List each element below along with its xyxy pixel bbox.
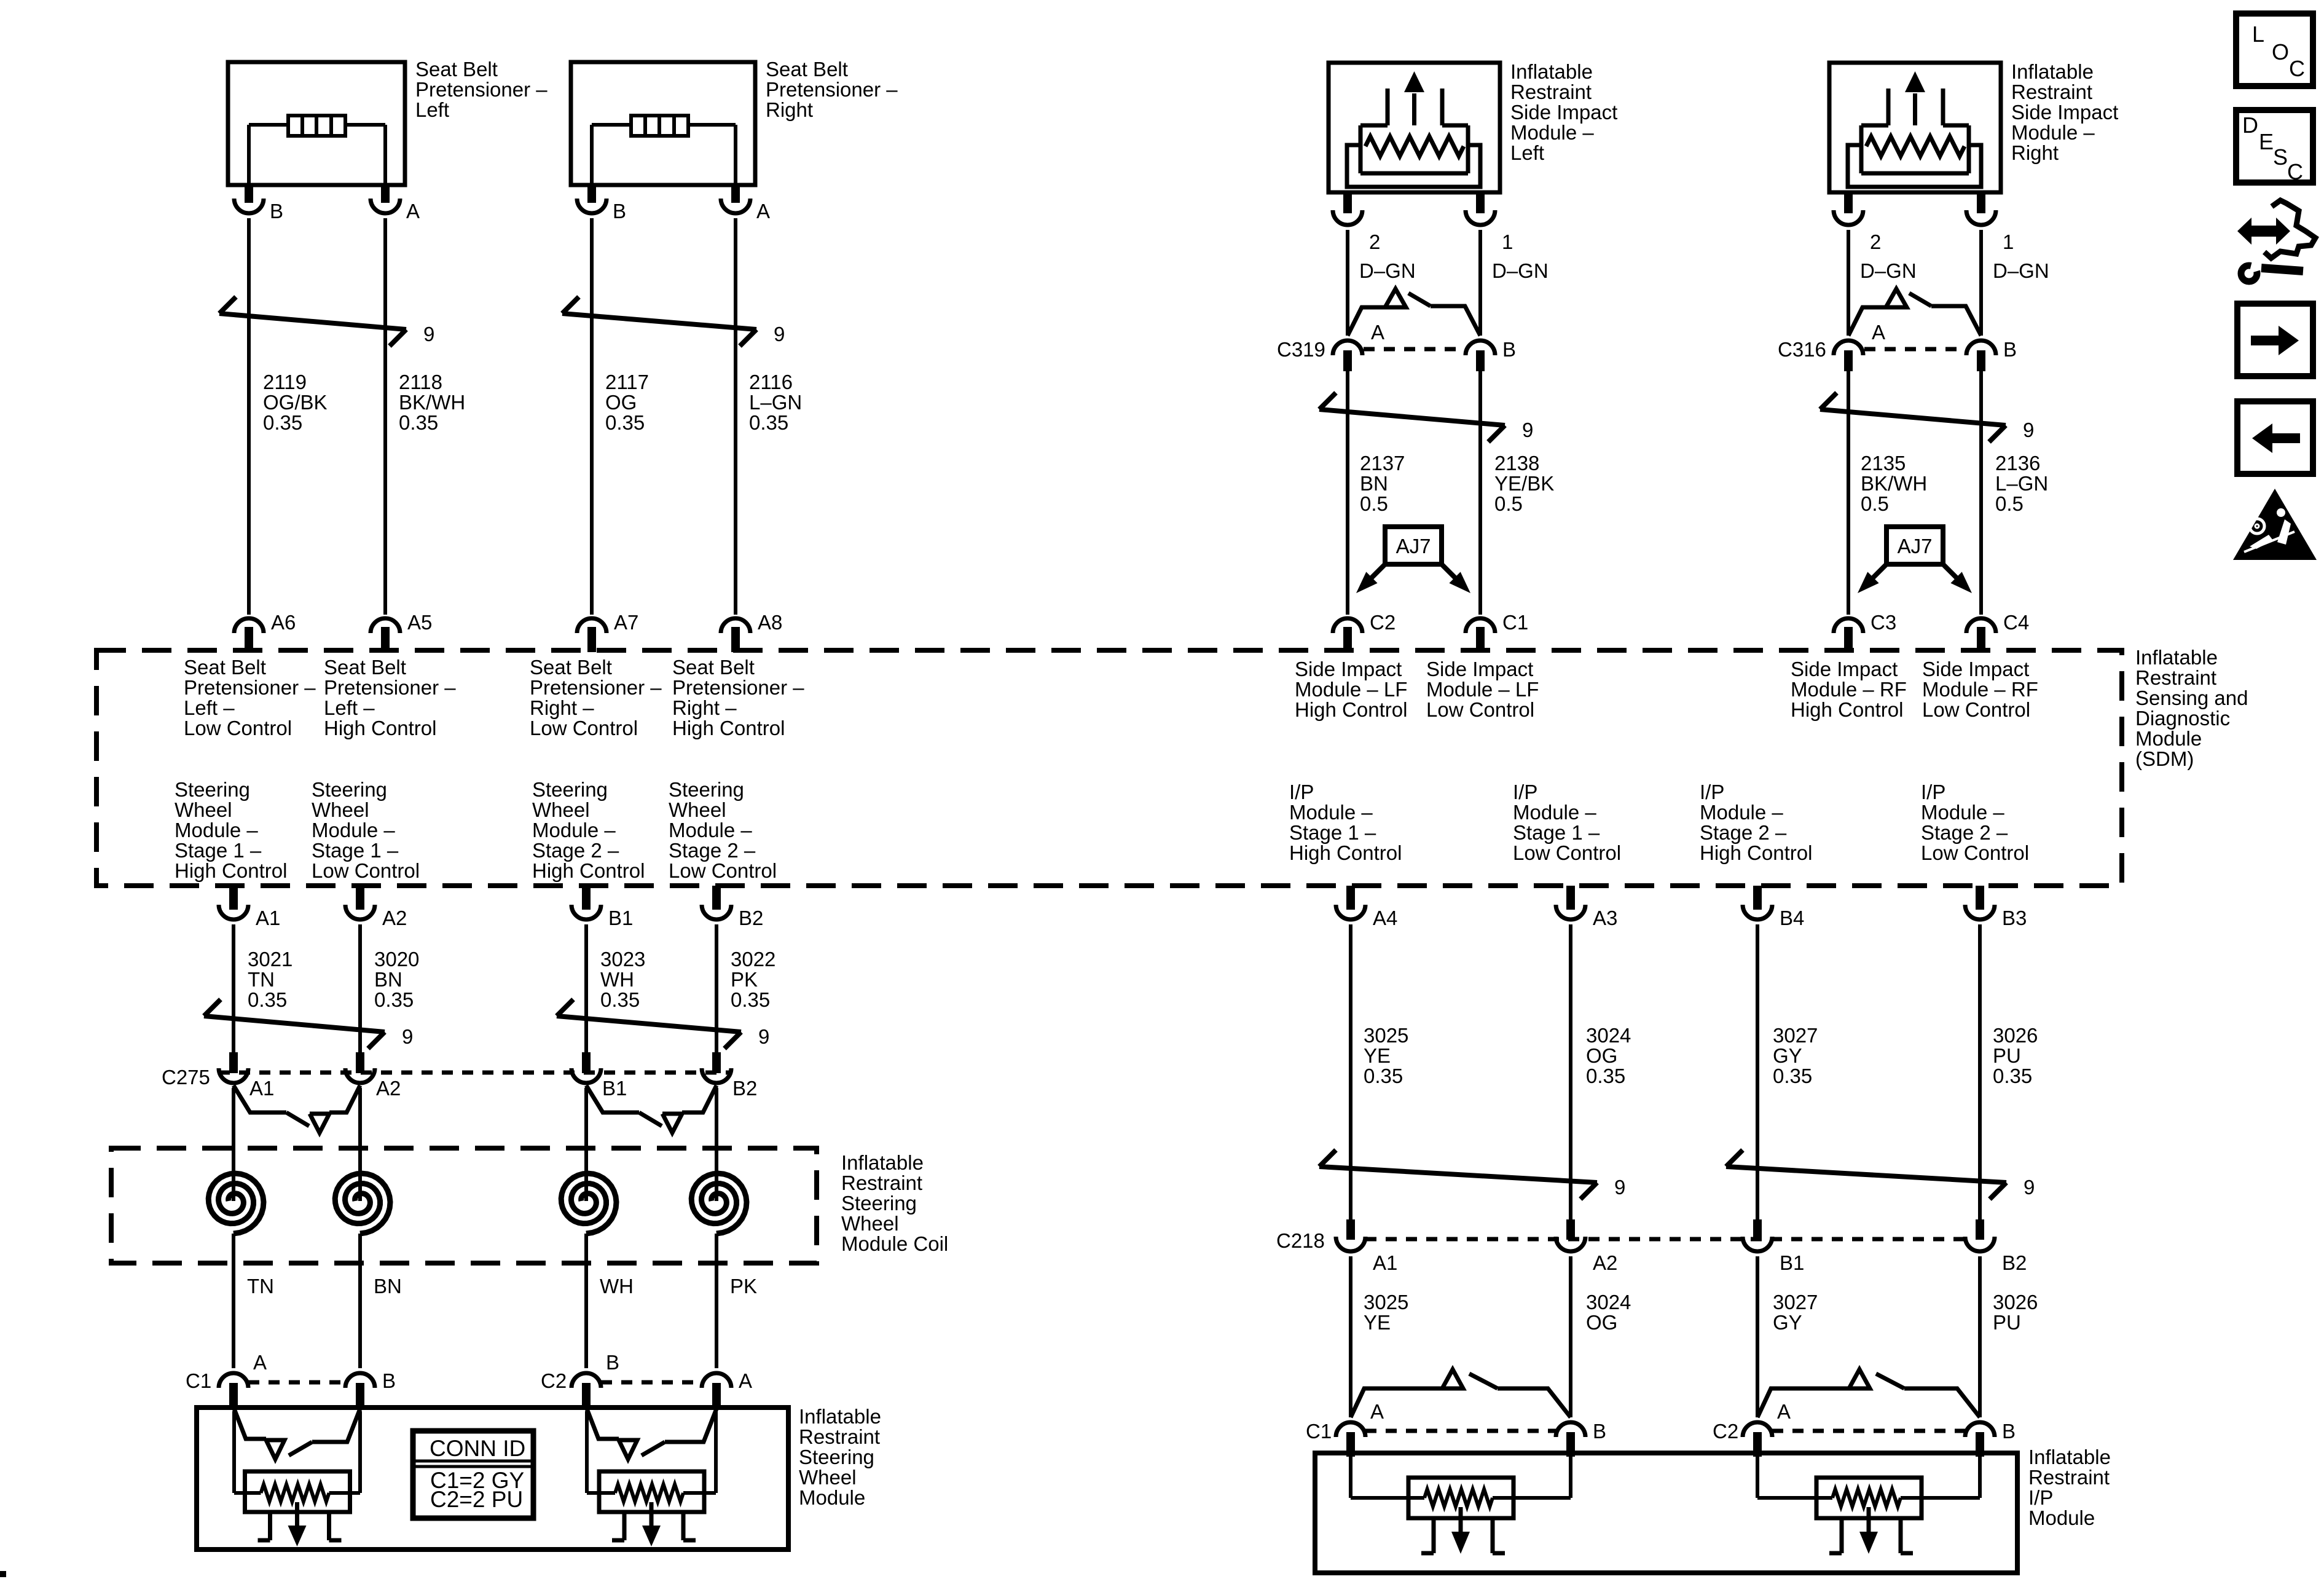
svg-text:Module Coil: Module Coil — [841, 1232, 948, 1255]
svg-text:B3: B3 — [2002, 907, 2027, 929]
C218 pin label A1 — [1373, 1251, 1397, 1274]
svg-text:Module –: Module – — [1513, 801, 1596, 824]
wire — [715, 924, 718, 1053]
label 9 — [402, 1025, 413, 1048]
svg-text:Module – LF: Module – LF — [1295, 678, 1407, 701]
wire — [1346, 371, 1349, 615]
SDM pin label B3 — [2002, 907, 2027, 929]
svg-text:Wheel: Wheel — [841, 1212, 899, 1235]
wire 3027 label — [1773, 1024, 1818, 1087]
SDM pin label A7 — [614, 611, 638, 634]
svg-text:Pretensioner –: Pretensioner – — [415, 78, 548, 101]
pin label A — [739, 1369, 752, 1392]
connector C1 line — [1365, 1429, 1556, 1433]
svg-text:GY: GY — [1773, 1311, 1802, 1334]
SDM top connector C1 stub — [1476, 627, 1485, 652]
svg-text:0.5: 0.5 — [1494, 492, 1523, 515]
IP module squib stage2 — [1757, 1453, 1980, 1554]
wire — [1349, 924, 1352, 1219]
svg-text:I/P: I/P — [1513, 781, 1537, 803]
svg-text:A: A — [253, 1351, 267, 1374]
SDM label side impact LF high — [1295, 658, 1407, 721]
svg-text:O: O — [2272, 39, 2289, 65]
svg-text:Left –: Left – — [184, 696, 235, 719]
svg-text:3024: 3024 — [1586, 1024, 1631, 1047]
C275 pin B2 cup — [702, 1068, 731, 1083]
svg-text:PK: PK — [730, 1275, 757, 1297]
svg-text:A8: A8 — [758, 611, 782, 634]
wire 3023 label — [600, 948, 645, 1011]
SDM pin label A3 — [1593, 907, 1617, 929]
svg-text:BN: BN — [374, 1275, 402, 1297]
svg-text:Wheel: Wheel — [175, 798, 232, 821]
SDM bottom connector B4 stub — [1753, 886, 1762, 910]
svg-text:S: S — [2273, 144, 2288, 170]
svg-text:Stage 2 –: Stage 2 – — [1700, 821, 1787, 844]
svg-text:Module – RF: Module – RF — [1791, 678, 1907, 701]
icon back arrow box — [2237, 401, 2313, 474]
pin label B — [382, 1369, 396, 1392]
svg-text:A3: A3 — [1593, 907, 1617, 929]
svg-text:Restraint: Restraint — [841, 1171, 922, 1194]
svg-text:B: B — [382, 1369, 396, 1392]
shorting clip in module C2 — [587, 1409, 716, 1459]
harness 9 crossing — [1820, 393, 2006, 442]
C218 pin A2 cup — [1556, 1237, 1585, 1251]
svg-text:9: 9 — [758, 1025, 769, 1048]
wire 2117 label — [605, 371, 649, 434]
svg-text:A1: A1 — [256, 907, 280, 929]
pretensioner Right pin A stub — [731, 185, 740, 203]
wire 3026 label2 — [1993, 1291, 2038, 1334]
svg-text:Module: Module — [799, 1486, 865, 1509]
SDM top connector A6 dome — [234, 618, 264, 633]
SDM top connector A6 stub — [245, 627, 253, 652]
pin connector — [1466, 210, 1495, 225]
svg-text:0.35: 0.35 — [731, 988, 770, 1011]
svg-text:0.5: 0.5 — [1360, 492, 1388, 515]
svg-text:C: C — [2289, 56, 2305, 81]
svg-text:Module –: Module – — [1700, 801, 1783, 824]
svg-text:3027: 3027 — [1773, 1291, 1818, 1313]
wire — [1847, 230, 1850, 336]
C218 pin B1 stub — [1753, 1219, 1762, 1240]
connector C1 label — [1306, 1420, 1332, 1443]
C275 pin label A2 — [376, 1077, 401, 1100]
SDM label steering wheel stage2 high — [532, 778, 645, 882]
svg-text:3022: 3022 — [731, 948, 775, 971]
svg-text:B2: B2 — [732, 1077, 757, 1100]
SDM label IP stage2 high — [1700, 781, 1812, 864]
C1/C2 dome A — [219, 1373, 248, 1388]
svg-text:Low Control: Low Control — [1921, 841, 2029, 864]
svg-text:0.35: 0.35 — [374, 988, 414, 1011]
C218 pin A1 cup — [1336, 1237, 1365, 1251]
icon forward arrow box — [2237, 304, 2313, 376]
svg-text:A: A — [1777, 1400, 1791, 1423]
connector dome A — [1834, 341, 1863, 355]
svg-text:3025: 3025 — [1364, 1291, 1408, 1313]
svg-text:0.35: 0.35 — [1993, 1065, 2032, 1087]
svg-text:9: 9 — [1522, 419, 1533, 441]
svg-text:B1: B1 — [602, 1077, 627, 1100]
svg-text:9: 9 — [774, 323, 785, 345]
SDM bottom connector A3 stub — [1566, 886, 1575, 910]
module pin stub — [1476, 192, 1485, 213]
svg-text:C1: C1 — [1306, 1420, 1332, 1443]
label 9 — [774, 323, 785, 345]
wire — [1756, 924, 1759, 1219]
svg-text:A2: A2 — [382, 907, 407, 929]
IP module label — [2028, 1446, 2111, 1529]
pin stub — [1976, 1432, 1984, 1457]
side impact module Left airbag symbol — [1347, 71, 1480, 187]
svg-text:High Control: High Control — [1791, 698, 1903, 721]
svg-text:C319: C319 — [1277, 338, 1325, 361]
seat belt pretensioner Right box — [571, 62, 755, 185]
svg-text:Module –: Module – — [532, 819, 616, 841]
SDM pin label A2 — [382, 907, 407, 929]
svg-text:Wheel: Wheel — [312, 798, 369, 821]
svg-text:B: B — [270, 200, 283, 222]
pin label 2 — [1870, 230, 1881, 253]
svg-text:Restraint: Restraint — [2011, 81, 2092, 103]
SDM pin label C3 — [1871, 611, 1896, 634]
svg-text:Module – LF: Module – LF — [1426, 678, 1539, 701]
pin stub — [1476, 350, 1485, 371]
C275 pin A1 stub — [229, 1052, 238, 1073]
wire 3025 label — [1364, 1024, 1408, 1087]
pin label B — [1593, 1420, 1606, 1443]
svg-text:Seat Belt: Seat Belt — [672, 656, 755, 679]
svg-text:3024: 3024 — [1586, 1291, 1631, 1313]
IP connector dome B — [1556, 1422, 1585, 1437]
IP connector dome B — [1965, 1422, 1995, 1437]
svg-text:Left: Left — [415, 98, 449, 121]
wire 3025 label2 — [1364, 1291, 1408, 1334]
SDM pin label C4 — [2003, 611, 2029, 634]
svg-text:Inflatable: Inflatable — [2011, 60, 2094, 83]
shorting clip at C319 — [1348, 289, 1480, 336]
wire color TN label — [247, 1275, 274, 1297]
pin label A — [1777, 1400, 1791, 1423]
wire — [358, 1088, 362, 1174]
wire 2119 label — [263, 371, 328, 434]
SDM bottom connector A4 cup — [1336, 905, 1365, 919]
steering wheel coil dashed box — [111, 1148, 817, 1263]
svg-text:0.5: 0.5 — [1995, 492, 2024, 515]
SDM bottom connector A4 stub — [1346, 886, 1355, 910]
SDM top connector A5 stub — [381, 627, 390, 652]
svg-text:Right: Right — [766, 98, 813, 121]
shorting clip below C275 B1-B2 — [586, 1085, 716, 1133]
svg-text:WH: WH — [600, 1275, 634, 1297]
pin label A — [756, 200, 770, 222]
pin stub — [1343, 350, 1352, 371]
svg-text:B: B — [1593, 1420, 1606, 1443]
inflatable restraint side impact module Left label — [1510, 60, 1617, 164]
svg-text:Side Impact: Side Impact — [1791, 658, 1898, 680]
pin label B — [606, 1351, 619, 1374]
wire — [590, 218, 594, 615]
svg-text:Restraint: Restraint — [1510, 81, 1592, 103]
AJ7 arrow left — [1356, 564, 1385, 593]
C218 pin label B2 — [2002, 1251, 2027, 1274]
svg-text:L–GN: L–GN — [749, 391, 802, 414]
wire — [1847, 371, 1850, 615]
wire — [734, 218, 737, 615]
wire 3021 label — [248, 948, 292, 1011]
svg-text:9: 9 — [402, 1025, 413, 1048]
SDM label side impact RF high — [1791, 658, 1907, 721]
connector C319 label — [1277, 338, 1325, 361]
svg-text:0.35: 0.35 — [1364, 1065, 1403, 1087]
connector C2 line — [601, 1380, 702, 1385]
label 9 — [423, 323, 434, 345]
connector C218 label — [1276, 1229, 1325, 1252]
SDM pin label B4 — [1780, 907, 1804, 929]
wire 2136 label — [1995, 452, 2048, 515]
SDM bottom connector B2 stub — [712, 886, 721, 910]
svg-text:Side Impact: Side Impact — [2011, 101, 2118, 124]
steering wheel module squib stage2 — [587, 1411, 716, 1546]
svg-text:High Control: High Control — [1700, 841, 1812, 864]
svg-text:Low Control: Low Control — [1513, 841, 1621, 864]
svg-text:GY: GY — [1773, 1044, 1802, 1067]
icon LOC box — [2236, 14, 2313, 86]
SDM bottom connector B2 cup — [702, 905, 731, 919]
pretensioner Right pin B connector — [577, 199, 607, 213]
svg-text:Steering: Steering — [841, 1192, 917, 1215]
SDM pin label B1 — [608, 907, 633, 929]
svg-text:PU: PU — [1993, 1044, 2021, 1067]
svg-text:BK/WH: BK/WH — [1861, 472, 1927, 495]
label 9 — [2023, 419, 2034, 441]
harness 9 crossing — [204, 999, 385, 1049]
wire — [1756, 1256, 1759, 1417]
svg-text:Wheel: Wheel — [799, 1466, 857, 1489]
pretensioner Left pin A stub — [381, 185, 390, 203]
pin label B — [613, 200, 626, 222]
svg-text:Steering: Steering — [312, 778, 387, 801]
seat belt pretensioner Right label — [766, 58, 898, 121]
svg-text:High Control: High Control — [672, 717, 785, 739]
inflatable restraint steering wheel module box — [197, 1408, 788, 1549]
wire color PK label — [730, 1275, 757, 1297]
C1/C2 dome B — [571, 1373, 601, 1388]
svg-text:B: B — [606, 1351, 619, 1374]
svg-text:Seat Belt: Seat Belt — [184, 656, 266, 679]
svg-text:Low Control: Low Control — [1426, 698, 1534, 721]
svg-text:AJ7: AJ7 — [1898, 535, 1933, 557]
pin connector — [1834, 210, 1863, 225]
connector C319 line — [1364, 347, 1464, 352]
splice pack AJ7 box — [1886, 527, 1943, 564]
pin label 1 — [2003, 230, 2014, 253]
svg-text:YE/BK: YE/BK — [1494, 472, 1554, 495]
svg-text:2: 2 — [1870, 230, 1881, 253]
svg-text:D–GN: D–GN — [1359, 259, 1416, 282]
svg-text:Right –: Right – — [672, 696, 737, 719]
SDM module name label — [2135, 646, 2248, 770]
C218 pin label B1 — [1780, 1251, 1804, 1274]
svg-text:Restraint: Restraint — [799, 1425, 880, 1448]
SDM top connector A7 dome — [577, 618, 607, 633]
svg-text:Steering: Steering — [799, 1446, 874, 1468]
clockspring coil — [561, 1168, 616, 1368]
SDM label steering wheel stage2 low — [669, 778, 777, 882]
svg-text:C4: C4 — [2003, 611, 2029, 634]
AJ7 arrow left — [1858, 564, 1886, 593]
svg-text:C: C — [2287, 159, 2303, 184]
SDM top connector C2 dome — [1333, 618, 1362, 633]
svg-text:Pretensioner –: Pretensioner – — [672, 676, 804, 699]
wire — [1569, 924, 1572, 1219]
C275 pin label B2 — [732, 1077, 757, 1100]
pretensioner Left pin A connector — [371, 199, 400, 213]
wire color D-GN — [1860, 259, 1917, 282]
pin stub — [1346, 1432, 1355, 1457]
inflatable restraint IP module box — [1315, 1453, 2017, 1573]
SDM label IP stage2 low — [1921, 781, 2029, 864]
wire — [584, 1088, 588, 1174]
label 9 — [1614, 1176, 1625, 1199]
svg-text:Stage 1 –: Stage 1 – — [1513, 821, 1600, 844]
svg-text:High Control: High Control — [1289, 841, 1402, 864]
pin label 2 — [1369, 230, 1380, 253]
svg-text:Seat Belt: Seat Belt — [324, 656, 406, 679]
SDM bottom connector A1 stub — [229, 886, 238, 910]
svg-text:C2=2 PU: C2=2 PU — [430, 1487, 523, 1512]
svg-text:Module –: Module – — [175, 819, 258, 841]
wire — [1979, 230, 1983, 336]
svg-text:Stage 2 –: Stage 2 – — [532, 839, 619, 862]
svg-text:A2: A2 — [1593, 1251, 1617, 1274]
wire — [1978, 1256, 1982, 1417]
wire 3027 label2 — [1773, 1291, 1818, 1334]
SDM top connector C4 stub — [1977, 627, 1985, 652]
C218 pin A2 stub — [1566, 1219, 1575, 1240]
SDM pin label A1 — [256, 907, 280, 929]
SDM label side impact LF low — [1426, 658, 1539, 721]
svg-text:TN: TN — [248, 968, 275, 991]
SDM label seat belt pretensioner right high — [672, 656, 804, 739]
SDM bottom connector A1 cup — [219, 905, 248, 919]
wire — [715, 1088, 718, 1174]
SDM dashed box — [96, 650, 2122, 886]
svg-text:9: 9 — [1614, 1176, 1625, 1199]
svg-text:Seat Belt: Seat Belt — [415, 58, 498, 81]
svg-text:B: B — [2003, 338, 2017, 361]
C275 pin B2 stub — [712, 1052, 721, 1073]
inflatable restraint side impact module Right label — [2011, 60, 2118, 164]
icon diagnostic jump — [2237, 200, 2315, 282]
SDM label side impact RF low — [1922, 658, 2038, 721]
C275 pin B1 stub — [582, 1052, 591, 1073]
svg-text:L–GN: L–GN — [1995, 472, 2048, 495]
svg-text:BN: BN — [1360, 472, 1388, 495]
svg-text:B: B — [2002, 1420, 2016, 1443]
pretensioner Left pin B connector — [234, 199, 264, 213]
svg-text:0.35: 0.35 — [605, 411, 645, 434]
pin label B — [270, 200, 283, 222]
svg-text:L: L — [2252, 22, 2264, 47]
pin label A — [1371, 321, 1384, 344]
svg-text:OG: OG — [1586, 1044, 1617, 1067]
svg-text:Right: Right — [2011, 141, 2059, 164]
page corner mark — [0, 1571, 6, 1577]
svg-text:TN: TN — [247, 1275, 274, 1297]
connector C218 line — [1365, 1237, 1965, 1242]
svg-text:Wheel: Wheel — [532, 798, 590, 821]
svg-text:Side Impact: Side Impact — [1510, 101, 1617, 124]
svg-text:I/P: I/P — [1289, 781, 1314, 803]
SDM pin label A8 — [758, 611, 782, 634]
svg-text:Stage 1 –: Stage 1 – — [175, 839, 262, 862]
svg-text:I/P: I/P — [2028, 1486, 2053, 1509]
clockspring coil — [208, 1168, 264, 1368]
SDM pin label B2 — [739, 907, 763, 929]
svg-text:1: 1 — [2003, 230, 2014, 253]
SDM label steering wheel stage1 high — [175, 778, 287, 882]
svg-text:(SDM): (SDM) — [2135, 747, 2194, 770]
C275 pin A1 cup — [219, 1068, 248, 1083]
svg-text:OG/BK: OG/BK — [263, 391, 328, 414]
svg-text:D–GN: D–GN — [1492, 259, 1549, 282]
wire color D-GN — [1359, 259, 1416, 282]
AJ7 arrow right — [1943, 564, 1972, 593]
SDM bottom connector A2 cup — [345, 905, 375, 919]
svg-text:Pretensioner –: Pretensioner – — [184, 676, 316, 699]
AJ7 arrow right — [1442, 564, 1470, 593]
pretensioner Left pin B stub — [245, 185, 253, 203]
connector C275 label — [162, 1066, 210, 1089]
svg-text:0.35: 0.35 — [248, 988, 287, 1011]
SDM top connector A5 dome — [371, 618, 400, 633]
harness 9 crossing — [219, 297, 406, 346]
pin label A — [406, 200, 420, 222]
connector C1 label — [186, 1369, 211, 1392]
SDM top connector C1 dome — [1466, 618, 1495, 633]
svg-text:C2: C2 — [1713, 1420, 1738, 1443]
connector C316 line — [1864, 347, 1965, 352]
svg-text:3025: 3025 — [1364, 1024, 1408, 1047]
svg-text:B2: B2 — [739, 907, 763, 929]
harness 9 crossing — [562, 297, 756, 346]
svg-text:WH: WH — [600, 968, 634, 991]
harness 9 crossing — [557, 999, 741, 1049]
connector C1 line — [248, 1380, 345, 1385]
svg-text:9: 9 — [2024, 1176, 2035, 1199]
clockspring coil — [335, 1168, 390, 1368]
icon DESC box — [2236, 110, 2313, 184]
svg-text:0.35: 0.35 — [1586, 1065, 1625, 1087]
connector dome B — [1466, 341, 1495, 355]
svg-text:2119: 2119 — [263, 371, 307, 393]
svg-text:3026: 3026 — [1993, 1024, 2038, 1047]
svg-text:A5: A5 — [407, 611, 432, 634]
svg-text:C2: C2 — [1370, 611, 1396, 634]
pin stub — [1977, 350, 1985, 371]
pin stub — [1566, 1432, 1575, 1457]
svg-text:Module: Module — [2135, 727, 2202, 750]
svg-text:3026: 3026 — [1993, 1291, 2038, 1313]
svg-text:2136: 2136 — [1995, 452, 2040, 474]
side impact module Right airbag symbol — [1848, 71, 1981, 187]
wire color D-GN — [1492, 259, 1549, 282]
pin label B — [2002, 1420, 2016, 1443]
svg-text:Wheel: Wheel — [669, 798, 726, 821]
